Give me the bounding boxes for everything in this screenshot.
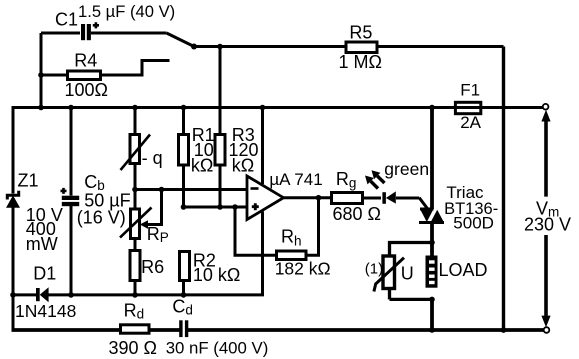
svg-text:kΩ: kΩ xyxy=(232,155,254,175)
triac Q1 BT136 xyxy=(419,209,444,223)
arrow Vm up xyxy=(541,110,550,197)
node switch pivot xyxy=(191,44,197,50)
arrow LED emission 2 xyxy=(372,170,385,183)
node right column / bottom bus xyxy=(501,327,507,333)
node top bus / Rp column xyxy=(132,105,138,111)
node feedback junction on plus input xyxy=(232,204,238,210)
switch S1 blade xyxy=(167,33,195,47)
wire top supply bus xyxy=(13,106,543,109)
svg-text:230 V: 230 V xyxy=(524,215,571,235)
wire left rail upper segment xyxy=(12,106,15,194)
wire feedback right side xyxy=(306,198,319,256)
svg-text:10 kΩ: 10 kΩ xyxy=(193,265,240,285)
node switch wire / R3 column junction xyxy=(217,44,223,50)
arrow Vm down xyxy=(541,235,550,327)
wire bottom bus right segment xyxy=(188,328,544,332)
node R3 bottom junction xyxy=(217,204,223,210)
wire R6 bottom lead xyxy=(134,281,137,296)
svg-text:390 Ω: 390 Ω xyxy=(109,338,158,358)
wire C1 right lead to switch xyxy=(91,32,167,35)
wire R4 left lead xyxy=(41,74,68,77)
wire varistor branch bottom xyxy=(390,298,433,301)
wire R4 right lead to open switch contact xyxy=(101,61,170,76)
node output/feedback junction xyxy=(316,195,322,201)
capacitor C1 xyxy=(81,22,99,40)
LED D2 green xyxy=(382,191,395,203)
node sub bus / Cb column xyxy=(68,292,74,298)
node top bus / C1 column xyxy=(38,105,44,111)
wire triac bottom lead xyxy=(430,223,434,256)
resistor Rh xyxy=(277,251,307,260)
svg-text:C1: C1 xyxy=(55,10,78,30)
svg-text:R4: R4 xyxy=(74,51,97,71)
svg-text:F1: F1 xyxy=(460,81,480,100)
resistor R2 xyxy=(180,252,190,281)
node R1/R2 divider junction xyxy=(181,204,187,210)
svg-text:(16 V): (16 V) xyxy=(77,208,126,228)
node top bus / Cb column xyxy=(68,105,74,111)
pin plus sign xyxy=(252,203,259,210)
wire R2 bottom lead xyxy=(182,281,185,296)
node branch bottom junction xyxy=(429,297,435,303)
wire variable element top lead xyxy=(134,108,137,135)
svg-text:R6: R6 xyxy=(141,257,164,277)
svg-text:1N4148: 1N4148 xyxy=(15,301,76,321)
wire D1 left lead xyxy=(13,293,36,296)
wire right column down to bottom bus xyxy=(502,47,505,332)
wire Rg to LED xyxy=(363,197,382,200)
svg-text:100Ω: 100Ω xyxy=(65,80,109,100)
svg-text:500D: 500D xyxy=(453,214,494,233)
node top bus / R1 column xyxy=(181,105,187,111)
fuse F1 xyxy=(455,102,480,113)
wire LED to triac gate xyxy=(396,197,419,200)
terminal Vm top xyxy=(543,104,549,110)
potentiometer Rp xyxy=(120,208,152,239)
node top bus / triac column xyxy=(429,105,435,111)
svg-text:30 nF (400 V): 30 nF (400 V) xyxy=(166,339,269,358)
wire feedback left side xyxy=(235,207,277,255)
svg-text:- q: - q xyxy=(142,148,163,168)
wire R1 bottom lead xyxy=(182,165,185,207)
node branch top junction xyxy=(429,240,435,246)
resistor R5 xyxy=(346,42,377,53)
capacitor Cb xyxy=(61,188,80,206)
svg-text:U: U xyxy=(401,264,414,284)
wire op-amp V+ supply pin xyxy=(261,108,264,185)
resistor R6 xyxy=(130,251,140,281)
svg-text:kΩ: kΩ xyxy=(191,155,213,175)
zener diode Z1 xyxy=(6,191,20,208)
wire triac column upper xyxy=(430,108,434,210)
svg-text:green: green xyxy=(384,159,429,179)
wire triac column bottom xyxy=(430,299,434,331)
wire -q to Rp xyxy=(134,164,137,210)
wire varistor branch top xyxy=(390,243,433,257)
wire op-amp inverting input xyxy=(135,188,247,191)
variable element -q xyxy=(121,135,151,171)
svg-text:1.5 µF (40 V): 1.5 µF (40 V) xyxy=(78,2,175,21)
wire left rail lower segment xyxy=(12,208,15,332)
wire bottom bus left segment xyxy=(12,328,180,332)
svg-text:Triac: Triac xyxy=(446,183,484,202)
wire C1/R4 column xyxy=(40,33,43,109)
node D1 tap on left rail xyxy=(10,292,16,298)
svg-text:µA 741: µA 741 xyxy=(269,170,322,189)
wire Cb bottom lead xyxy=(70,206,73,295)
node wire to inverting input left end xyxy=(132,187,138,193)
diode D1 xyxy=(36,287,49,302)
node sub bus / R6 column xyxy=(132,292,138,298)
wire varistor bottom lead xyxy=(388,289,391,300)
wire triac gate diagonal xyxy=(419,198,428,210)
svg-text:Z1: Z1 xyxy=(18,171,39,191)
resistor R4 xyxy=(68,71,101,80)
wire R5 right lead xyxy=(377,45,504,48)
node sub bus / R2 column xyxy=(181,292,187,298)
svg-text:1 MΩ: 1 MΩ xyxy=(339,52,382,72)
wire op-amp non-inverting input xyxy=(184,206,248,209)
resistor R3 xyxy=(215,135,225,166)
node top bus / op-amp supply column xyxy=(260,105,266,111)
resistor Rd xyxy=(121,325,150,333)
wire switch to R5 xyxy=(194,45,346,48)
svg-text:D1: D1 xyxy=(33,264,56,284)
wire sub bus to op-amp V- xyxy=(48,212,263,295)
pin minus sign xyxy=(251,187,259,190)
svg-text:mW: mW xyxy=(26,234,58,254)
node triac column / bottom bus xyxy=(429,327,435,333)
svg-text:182 kΩ: 182 kΩ xyxy=(275,259,331,279)
wire R3 bottom lead xyxy=(219,165,222,207)
terminal Vm bottom xyxy=(544,327,550,333)
resistor R1 xyxy=(179,135,189,166)
arrow LED emission 1 xyxy=(365,176,378,189)
wire Cb top lead xyxy=(70,108,73,196)
wire op-amp V- supply pin xyxy=(261,212,264,296)
wire R1 top lead xyxy=(182,108,185,135)
wire C1 left lead xyxy=(41,32,80,35)
varistor RV1 (1) xyxy=(374,256,404,292)
resistor Rg xyxy=(332,193,363,204)
wire Rp wiper xyxy=(148,190,162,225)
node R4 tap on C1 column xyxy=(38,72,44,78)
node Rp wiper junction xyxy=(159,187,165,193)
svg-text:LOAD: LOAD xyxy=(439,260,488,280)
op-amp U1 µA741 xyxy=(247,176,284,220)
svg-text:R5: R5 xyxy=(349,22,372,42)
svg-text:680 Ω: 680 Ω xyxy=(333,204,382,224)
wire Rp to R6 xyxy=(134,239,137,251)
wire R3 column upper xyxy=(219,47,222,135)
wire op-amp output xyxy=(284,196,332,199)
svg-text:(1): (1) xyxy=(365,260,383,277)
svg-text:2A: 2A xyxy=(460,113,481,132)
capacitor Cd xyxy=(179,320,188,337)
load RL xyxy=(426,256,438,288)
arrow Rp wiper head xyxy=(140,220,148,228)
